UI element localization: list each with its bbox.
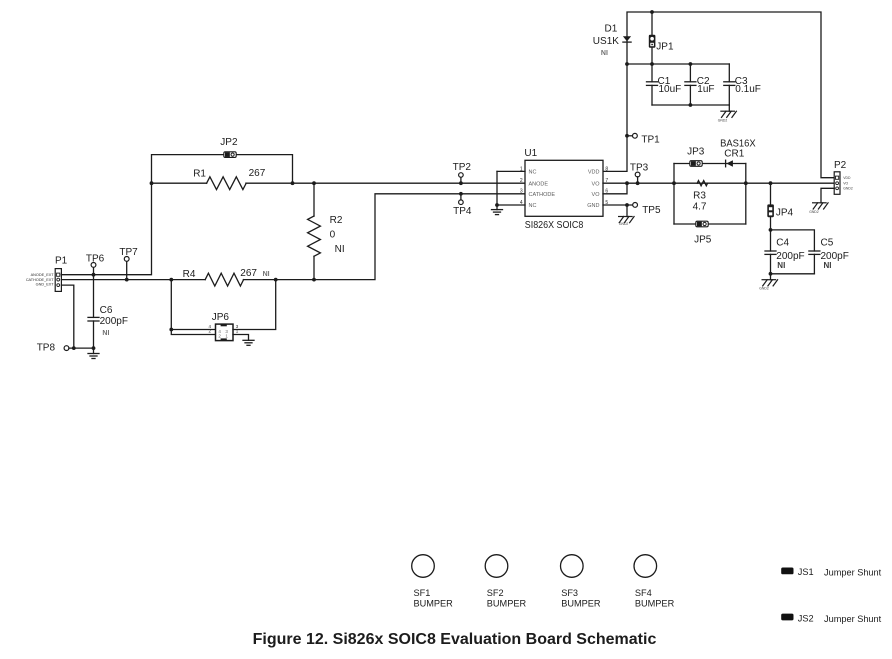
bumper SF1 xyxy=(412,555,435,578)
svg-text:GND: GND xyxy=(587,203,599,209)
bumper SF4 xyxy=(634,555,657,578)
svg-text:JP3: JP3 xyxy=(687,147,705,158)
svg-text:CR1: CR1 xyxy=(724,148,744,159)
svg-text:U1: U1 xyxy=(524,148,537,159)
svg-text:R1: R1 xyxy=(193,168,206,179)
node C2 bottom junction xyxy=(689,103,693,107)
svg-text:JP2: JP2 xyxy=(220,137,238,148)
jumper JP5 xyxy=(696,221,708,227)
svg-text:1: 1 xyxy=(520,166,523,172)
svg-text:VO: VO xyxy=(843,181,848,185)
wire U1 pin 4 stub xyxy=(497,204,525,206)
wire JP6 pin3 riser xyxy=(233,280,276,330)
testpoint TP5 xyxy=(633,203,638,208)
svg-text:VO: VO xyxy=(592,192,601,198)
svg-text:P2: P2 xyxy=(834,160,847,171)
wire cathode line right of R4 xyxy=(243,194,525,280)
node R2 top junction xyxy=(312,181,316,185)
wire JP1 to mid rail xyxy=(651,48,653,64)
diode CR1 xyxy=(726,160,733,167)
svg-text:C5: C5 xyxy=(821,238,834,249)
svg-text:GND2: GND2 xyxy=(843,187,853,191)
wire anode rail to U1 pin 2 xyxy=(246,182,525,184)
node pin6 junction xyxy=(625,181,629,185)
bumper SF2 xyxy=(485,555,508,578)
svg-text:4.7: 4.7 xyxy=(693,201,707,212)
capacitor C4 xyxy=(765,230,776,274)
op-amp U1 body xyxy=(525,160,603,216)
node C4 bottom junction xyxy=(769,272,773,276)
jumper JP1 xyxy=(649,35,656,48)
ground GND2 below C4 xyxy=(762,280,778,286)
wire C5 top branch xyxy=(771,230,815,251)
resistor R4 xyxy=(205,273,243,286)
ground GND2 below C3 xyxy=(721,111,737,117)
svg-text:VDD: VDD xyxy=(843,176,851,180)
svg-text:JP1: JP1 xyxy=(656,41,674,52)
resistor R3 xyxy=(697,181,707,186)
wire C4 ground stub xyxy=(770,274,772,280)
svg-text:267: 267 xyxy=(240,268,257,279)
resistor R2 xyxy=(308,183,321,279)
ground earth at JP6 xyxy=(243,340,254,345)
ground GND2 at U1 pin5 xyxy=(619,217,635,223)
node TP1 junction xyxy=(625,134,629,138)
node JP6 right junction xyxy=(274,278,278,282)
wire NC ground drop xyxy=(496,171,498,209)
ground earth below C6 xyxy=(88,348,99,358)
jumper shunt JS1 xyxy=(781,568,793,575)
wire JP5 bottom branch xyxy=(674,223,746,225)
svg-text:R2: R2 xyxy=(330,215,343,226)
connector P1 xyxy=(55,269,61,292)
svg-text:TP2: TP2 xyxy=(453,162,472,173)
svg-text:R4: R4 xyxy=(183,269,196,280)
svg-text:4: 4 xyxy=(520,200,523,206)
wire GND_EXT P1 pin3 xyxy=(61,285,73,348)
wire VDD drop to U1 pin 8 xyxy=(603,64,627,171)
wire JP4 branch upper xyxy=(770,183,772,204)
testpoint TP8 xyxy=(64,346,69,351)
jumper JP2 loop wires xyxy=(152,155,293,184)
svg-text:C4: C4 xyxy=(776,238,789,249)
svg-text:Figure 12. Si826x SOIC8 Evalua: Figure 12. Si826x SOIC8 Evaluation Board… xyxy=(253,631,657,648)
wire U1 pin 7 output rail xyxy=(603,182,834,184)
wire JP6 pin4 xyxy=(171,329,215,331)
diode D1 xyxy=(623,36,631,42)
svg-text:NC: NC xyxy=(529,203,537,209)
svg-text:TP4: TP4 xyxy=(453,206,472,217)
node JP6 left junction xyxy=(169,278,173,282)
svg-text:TP6: TP6 xyxy=(86,254,105,265)
svg-text:Jumper Shunt: Jumper Shunt xyxy=(824,614,882,624)
svg-text:BUMPER: BUMPER xyxy=(487,599,527,609)
wire mid rail xyxy=(627,63,729,65)
svg-text:Jumper Shunt: Jumper Shunt xyxy=(824,567,882,577)
wire anode feed P1 pin1 xyxy=(61,183,151,275)
wire pin5 ground drop xyxy=(626,205,628,217)
svg-text:ANODE_EXT: ANODE_EXT xyxy=(31,273,55,277)
svg-text:200pF: 200pF xyxy=(100,316,128,327)
jumper JP4 xyxy=(767,204,774,217)
testpoint TP4 xyxy=(459,194,464,205)
svg-text:C6: C6 xyxy=(100,305,113,316)
wire JP4 branch lower xyxy=(770,217,772,230)
testpoint TP1 xyxy=(633,133,638,138)
svg-text:TP1: TP1 xyxy=(641,134,660,145)
node C4 top junction xyxy=(769,228,773,232)
svg-text:3: 3 xyxy=(520,189,523,195)
wire capacitor bottom rail xyxy=(652,104,729,106)
wire C5 bottom branch xyxy=(771,273,815,275)
svg-text:GND2: GND2 xyxy=(809,210,819,214)
node JP1 mid junction xyxy=(650,62,654,66)
svg-text:SF4: SF4 xyxy=(635,588,652,598)
wire JP5 loop right xyxy=(745,164,747,225)
node C2 top junction xyxy=(689,62,693,66)
svg-text:NI: NI xyxy=(335,244,345,255)
wire TP1 stub xyxy=(627,135,633,137)
svg-text:NI: NI xyxy=(777,261,785,270)
node R2 bottom junction xyxy=(312,278,316,282)
bumper SF3 xyxy=(561,555,584,578)
svg-text:JP5: JP5 xyxy=(694,234,712,245)
svg-text:NI: NI xyxy=(601,50,608,57)
svg-text:VO: VO xyxy=(592,181,601,187)
svg-text:BUMPER: BUMPER xyxy=(414,599,454,609)
wire JP3 top branch xyxy=(674,163,746,165)
capacitor C6 xyxy=(88,275,99,348)
capacitor C3 xyxy=(724,64,735,105)
wire JP1 branch xyxy=(651,12,653,35)
node JP4 top junction xyxy=(769,181,773,185)
svg-text:NI: NI xyxy=(824,261,832,270)
node JP6 pin4 junction xyxy=(169,328,173,332)
node GND_EXT junction xyxy=(72,346,76,350)
jumper shunt JS2 xyxy=(781,614,793,621)
svg-text:BUMPER: BUMPER xyxy=(561,599,601,609)
node D1 mid junction xyxy=(625,62,629,66)
svg-text:JS2: JS2 xyxy=(798,614,814,624)
svg-text:ANODE: ANODE xyxy=(529,181,549,187)
svg-text:D1: D1 xyxy=(605,24,618,35)
wire U1 pin 1 stub xyxy=(497,170,525,172)
testpoint TP7 xyxy=(124,257,129,280)
svg-text:267: 267 xyxy=(249,168,266,179)
svg-text:10uF: 10uF xyxy=(659,84,682,95)
node JP2 right junction xyxy=(291,181,295,185)
capacitor C2 xyxy=(685,64,696,105)
svg-text:BUMPER: BUMPER xyxy=(635,599,675,609)
svg-text:US1K: US1K xyxy=(593,36,619,47)
testpoint TP6 xyxy=(91,263,96,275)
wire cathode line P1 pin2 xyxy=(61,279,205,281)
svg-text:TP8: TP8 xyxy=(37,342,56,353)
wire TP8 to ground xyxy=(69,347,94,349)
node TP2 junction xyxy=(459,181,463,185)
resistor R1 xyxy=(207,177,247,190)
jumper JP6 xyxy=(216,324,234,341)
svg-text:GND2: GND2 xyxy=(619,222,629,226)
node TP6 junction xyxy=(92,273,96,277)
capacitor C1 xyxy=(647,64,658,105)
testpoint TP2 xyxy=(459,173,464,184)
node TP5 junction xyxy=(625,203,629,207)
wire VDD top rail xyxy=(627,12,834,178)
svg-text:1uF: 1uF xyxy=(697,84,714,95)
svg-text:0: 0 xyxy=(330,229,336,240)
wire U1 pin 5 stub xyxy=(603,204,633,206)
jumper JP2 xyxy=(224,152,236,158)
svg-text:P1: P1 xyxy=(55,256,68,267)
wire JP6 pin1 to ground xyxy=(233,335,249,341)
svg-text:JS1: JS1 xyxy=(798,567,814,577)
svg-text:VDD: VDD xyxy=(588,170,600,176)
svg-text:0.1uF: 0.1uF xyxy=(735,84,761,95)
svg-text:CATHODE: CATHODE xyxy=(529,192,556,198)
svg-text:TP7: TP7 xyxy=(119,247,138,258)
svg-text:8: 8 xyxy=(605,166,608,172)
svg-text:NI: NI xyxy=(102,330,109,337)
wire stub to GND2 xyxy=(728,105,730,111)
svg-text:SF3: SF3 xyxy=(561,588,578,598)
node TP3 junction xyxy=(636,181,640,185)
node R1 left junction xyxy=(150,181,154,185)
wire U1 pin 6 jog xyxy=(603,183,627,194)
ground GND2 below P2 xyxy=(813,203,829,209)
svg-text:TP3: TP3 xyxy=(630,163,649,174)
node loop left junction xyxy=(672,181,676,185)
wire anode rail to R1 xyxy=(152,182,207,184)
node NC ground junction xyxy=(495,203,499,207)
testpoint TP3 xyxy=(635,172,640,183)
node top JP1 junction xyxy=(650,10,654,14)
wire P2 pin3 ground xyxy=(821,188,834,203)
svg-text:SF2: SF2 xyxy=(487,588,504,598)
capacitor C5 xyxy=(809,251,820,274)
svg-text:JP4: JP4 xyxy=(776,207,794,218)
svg-text:R3: R3 xyxy=(693,191,706,202)
svg-text:CATHODE_EXT: CATHODE_EXT xyxy=(26,278,54,282)
connector P2 xyxy=(834,172,840,195)
svg-text:SI826X SOIC8: SI826X SOIC8 xyxy=(525,220,584,231)
wire JP3 loop left xyxy=(673,164,675,225)
svg-text:GND_EXT: GND_EXT xyxy=(36,283,55,287)
svg-text:NC: NC xyxy=(529,170,537,176)
svg-text:NI: NI xyxy=(263,271,270,278)
node loop right junction xyxy=(744,181,748,185)
wire JP6 left branch xyxy=(171,280,215,335)
node TP7 junction xyxy=(125,278,129,282)
node TP4 junction xyxy=(459,192,463,196)
jumper JP3 xyxy=(690,161,702,167)
svg-text:TP5: TP5 xyxy=(642,205,661,216)
ground earth at U1 xyxy=(492,210,503,215)
node C6 bottom junction xyxy=(92,346,96,350)
svg-text:2: 2 xyxy=(520,178,523,184)
svg-text:SF1: SF1 xyxy=(414,588,431,598)
svg-text:GND2: GND2 xyxy=(718,119,728,123)
svg-text:JP6: JP6 xyxy=(212,312,230,323)
svg-text:GND2: GND2 xyxy=(759,287,769,291)
